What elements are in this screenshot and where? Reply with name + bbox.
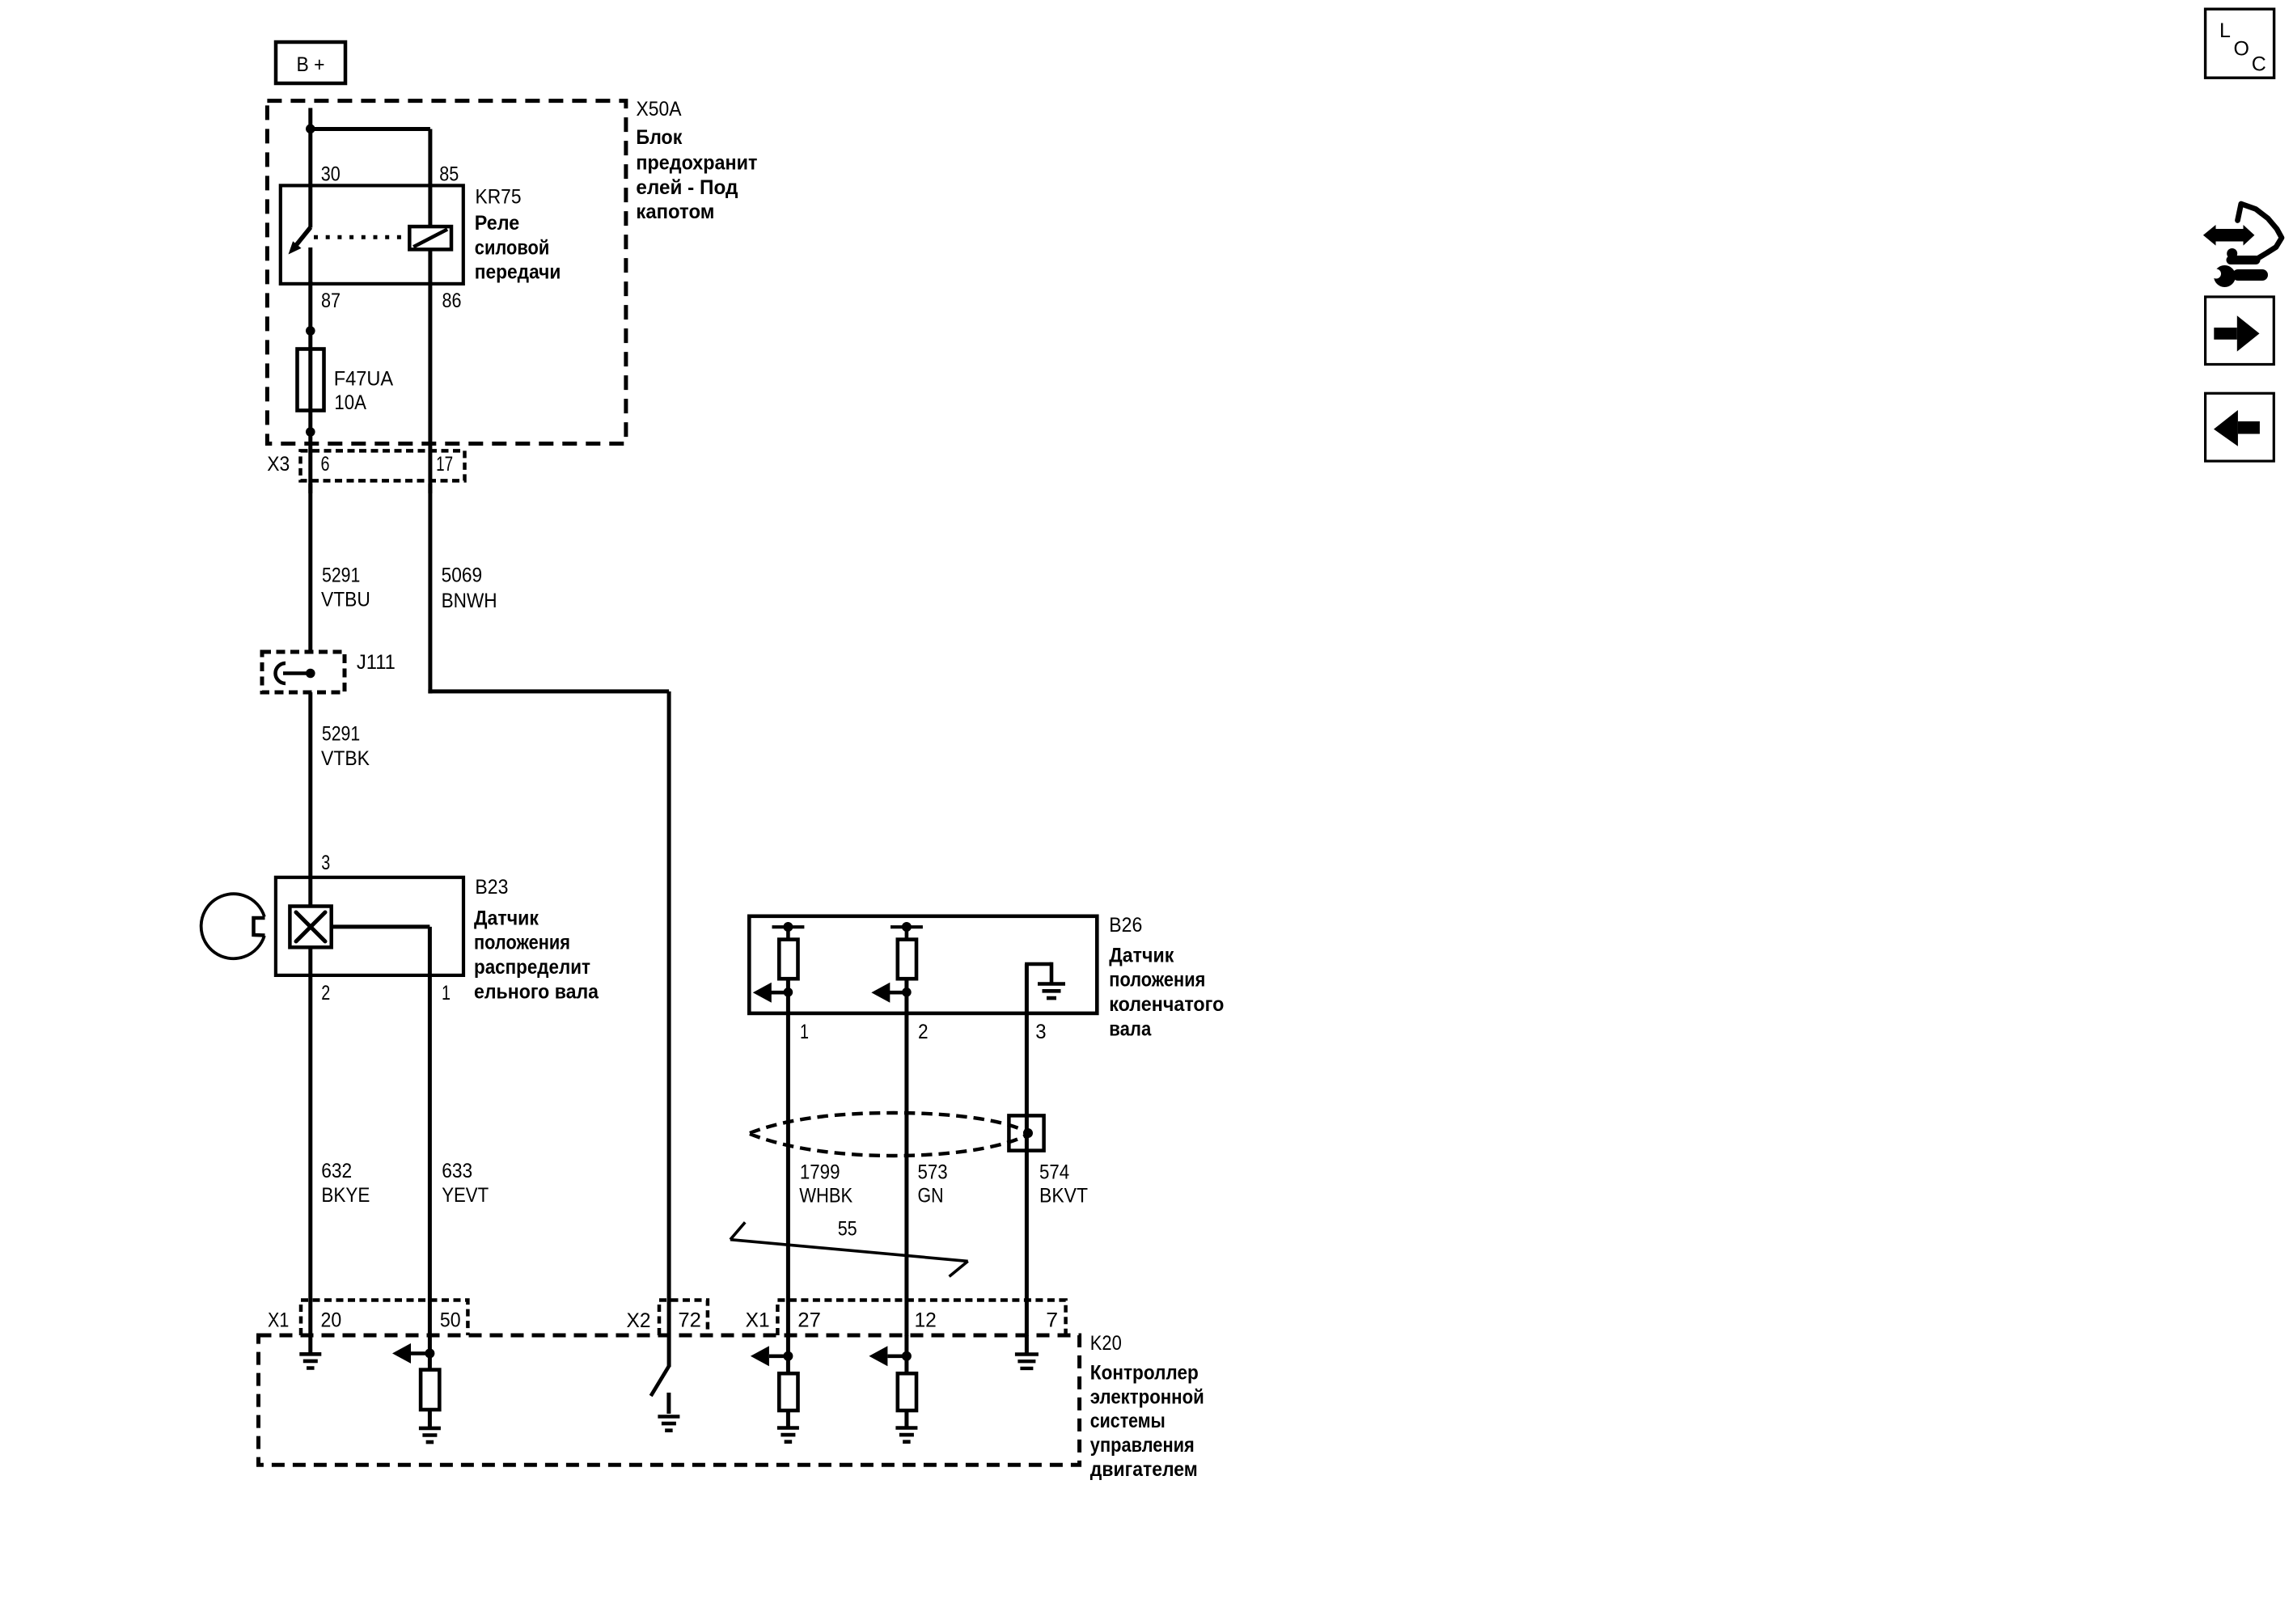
K20 pin12 ground <box>895 1428 917 1442</box>
K20 pin20 ground wire <box>308 1335 312 1354</box>
K20 pin27 arrow <box>751 1346 789 1366</box>
sensor element circle <box>201 894 265 958</box>
svg-text:вала: вала <box>1109 1017 1152 1040</box>
svg-text:1: 1 <box>800 1021 809 1043</box>
K20 pin50 junction <box>425 1335 434 1358</box>
svg-text:Реле: Реле <box>475 212 520 235</box>
svg-text:3: 3 <box>1035 1021 1046 1043</box>
svg-text:85: 85 <box>439 163 459 186</box>
svg-text:7: 7 <box>1046 1309 1058 1332</box>
svg-text:VTBU: VTBU <box>321 589 370 611</box>
svg-text:положения: положения <box>474 932 570 954</box>
K20 pin12 arrow <box>869 1346 907 1366</box>
harness slash 55 <box>730 1222 968 1276</box>
node junction below fuse <box>306 427 315 437</box>
svg-text:12: 12 <box>915 1309 937 1332</box>
K20 pin72 switch <box>651 1335 669 1414</box>
svg-text:Датчик: Датчик <box>1109 944 1174 966</box>
sensor internal resistor 1 <box>772 922 805 1013</box>
relay coil KR75 <box>409 226 451 249</box>
sensor B23 box <box>276 878 463 975</box>
node junction above relay <box>306 125 315 134</box>
svg-text:573: 573 <box>918 1161 948 1183</box>
svg-text:633: 633 <box>442 1160 472 1182</box>
wire pin 86 to connector X3-17 <box>428 284 432 493</box>
wire 574 BKVT to K20 <box>1025 1013 1029 1336</box>
wire X-element to pin 1 <box>332 927 430 975</box>
K20 pin50 arrow <box>392 1343 429 1364</box>
svg-text:574: 574 <box>1039 1161 1069 1183</box>
svg-text:6: 6 <box>321 453 330 476</box>
connector X1 bracket (20/50) <box>301 1300 467 1336</box>
svg-text:86: 86 <box>442 290 462 312</box>
wire branch to pin 85 <box>308 129 430 188</box>
svg-text:F47UA: F47UA <box>334 368 394 391</box>
svg-text:X50A: X50A <box>637 98 682 121</box>
svg-text:BKVT: BKVT <box>1039 1185 1088 1207</box>
svg-text:положения: положения <box>1109 969 1205 992</box>
svg-text:72: 72 <box>678 1309 701 1332</box>
svg-text:87: 87 <box>321 290 341 312</box>
sensor internal ground symbol <box>1038 984 1065 999</box>
wire 633 YEVT to K20 <box>428 975 432 1336</box>
sensor internal resistor 2 <box>891 922 923 1013</box>
wire X-element to pin 2 <box>308 947 312 975</box>
svg-text:55: 55 <box>838 1217 857 1240</box>
legend forward arrow box <box>2206 297 2274 365</box>
wire pin 85 into coil <box>428 185 432 226</box>
K20 pin12 junction <box>902 1335 912 1361</box>
svg-text:ельного вала: ельного вала <box>474 980 599 1003</box>
svg-text:B +: B + <box>297 53 325 76</box>
K20 pin50 resistor <box>421 1353 439 1428</box>
wire 632 BKYE to K20 <box>308 975 312 1336</box>
svg-text:1: 1 <box>442 982 451 1004</box>
svg-text:3: 3 <box>321 852 330 874</box>
legend back arrow box <box>2206 393 2274 461</box>
harness loop dashed ellipse <box>750 1113 1026 1156</box>
fuse block X50A dashed outline <box>267 101 626 444</box>
legend back arrow <box>2214 410 2260 446</box>
svg-text:системы: системы <box>1090 1410 1166 1432</box>
controller K20 dashed outline <box>259 1335 1080 1465</box>
svg-text:электронной: электронной <box>1090 1385 1204 1408</box>
svg-text:5069: 5069 <box>442 564 483 586</box>
K20 pin27 junction <box>783 1335 793 1361</box>
K20 pin27 resistor <box>779 1356 797 1428</box>
svg-text:30: 30 <box>321 163 341 186</box>
svg-text:10A: 10A <box>334 391 366 414</box>
splice J111 dashed box <box>262 652 345 692</box>
connector X2 bracket (72) <box>659 1300 708 1336</box>
connector X1 bracket (27/12/7) <box>777 1300 1065 1336</box>
K20 pin27 ground <box>777 1428 799 1442</box>
sensor internal arrow 2 <box>871 983 911 1003</box>
sensor internal ground wire <box>1025 962 1051 1013</box>
sensor B23 X-element <box>290 907 331 948</box>
svg-text:YEVT: YEVT <box>442 1184 489 1207</box>
svg-text:VTBK: VTBK <box>321 747 370 770</box>
legend harness icon double arrow <box>2203 225 2255 246</box>
K20 pin72 ground <box>658 1417 679 1431</box>
harness loop anchor box <box>1009 1115 1043 1150</box>
svg-text:C: C <box>2252 53 2266 75</box>
connector X3 dashed box <box>301 450 465 480</box>
svg-text:2: 2 <box>918 1021 929 1043</box>
wire 573 GN to K20 <box>904 1013 908 1336</box>
svg-text:X2: X2 <box>627 1309 651 1332</box>
wire B+ to relay pin 30 <box>308 108 312 188</box>
wire fuse to connector X3-6 <box>308 408 312 493</box>
wire coil to pin 86 <box>428 249 432 285</box>
svg-text:1799: 1799 <box>800 1161 840 1183</box>
svg-text:632: 632 <box>321 1160 352 1182</box>
svg-text:капотом: капотом <box>636 201 714 223</box>
svg-text:2: 2 <box>321 982 330 1004</box>
svg-text:силовой: силовой <box>475 236 550 259</box>
svg-text:передачи: передачи <box>475 261 561 284</box>
relay actuation dotted link <box>314 235 409 239</box>
svg-text:Блок: Блок <box>636 126 682 149</box>
relay switch common wire <box>308 185 312 227</box>
power symbol B+ box <box>276 42 345 83</box>
svg-text:коленчатого: коленчатого <box>1109 993 1224 1016</box>
sensor internal arrow 1 <box>753 983 793 1003</box>
svg-text:O: O <box>2234 37 2249 60</box>
svg-text:BNWH: BNWH <box>442 590 497 612</box>
K20 pin50 ground <box>419 1428 441 1442</box>
svg-text:X1: X1 <box>268 1309 289 1332</box>
svg-text:управления: управления <box>1090 1434 1195 1457</box>
legend forward arrow <box>2214 315 2259 351</box>
relay switch output stub <box>308 247 312 285</box>
splice J111 symbol <box>276 663 315 683</box>
legend harness icon wrench <box>2211 265 2262 287</box>
svg-text:X3: X3 <box>267 453 290 476</box>
svg-text:J111: J111 <box>357 651 396 674</box>
svg-text:Датчик: Датчик <box>474 907 539 929</box>
svg-text:5291: 5291 <box>322 723 360 746</box>
svg-text:GN: GN <box>918 1185 944 1207</box>
svg-text:елей - Под: елей - Под <box>636 176 738 199</box>
svg-text:распределит: распределит <box>474 956 590 979</box>
svg-text:27: 27 <box>797 1309 821 1332</box>
K20 pin12 resistor <box>898 1356 916 1428</box>
K20 pin7 ground <box>1015 1355 1039 1368</box>
svg-text:B23: B23 <box>475 876 508 899</box>
svg-text:20: 20 <box>321 1309 342 1332</box>
wire pin3 to X-element <box>308 878 312 907</box>
relay switch blade <box>289 227 311 255</box>
svg-text:KR75: KR75 <box>476 186 522 209</box>
svg-text:17: 17 <box>436 453 453 476</box>
wire 5291 VTBU segment <box>308 484 312 652</box>
wire 5069 BNWH segment <box>428 484 669 1335</box>
legend LOC box <box>2206 9 2274 78</box>
svg-text:5291: 5291 <box>322 564 360 586</box>
sensor B26 box <box>749 916 1097 1013</box>
K20 pin20 ground <box>299 1354 321 1368</box>
svg-text:L: L <box>2219 19 2231 42</box>
wire relay 87 to fuse <box>308 281 312 350</box>
wire J111 to B23 pin 3 <box>308 692 312 878</box>
node junction above fuse <box>306 326 315 336</box>
svg-text:50: 50 <box>440 1309 461 1332</box>
svg-text:WHBK: WHBK <box>799 1185 852 1207</box>
svg-text:B26: B26 <box>1109 914 1142 937</box>
wire 1799 WHBK to K20 <box>786 1013 790 1336</box>
K20 pin7 ground wire <box>1025 1335 1029 1355</box>
svg-text:предохранит: предохранит <box>636 152 757 175</box>
svg-text:Контроллер: Контроллер <box>1090 1362 1199 1385</box>
fuse F47UA 10A <box>298 349 324 411</box>
relay KR75 box <box>281 185 463 284</box>
svg-text:BKYE: BKYE <box>321 1184 370 1207</box>
svg-text:двигателем: двигателем <box>1090 1458 1198 1481</box>
svg-text:X1: X1 <box>746 1309 770 1332</box>
legend harness icon cable <box>2227 204 2282 260</box>
svg-text:K20: K20 <box>1090 1332 1122 1355</box>
